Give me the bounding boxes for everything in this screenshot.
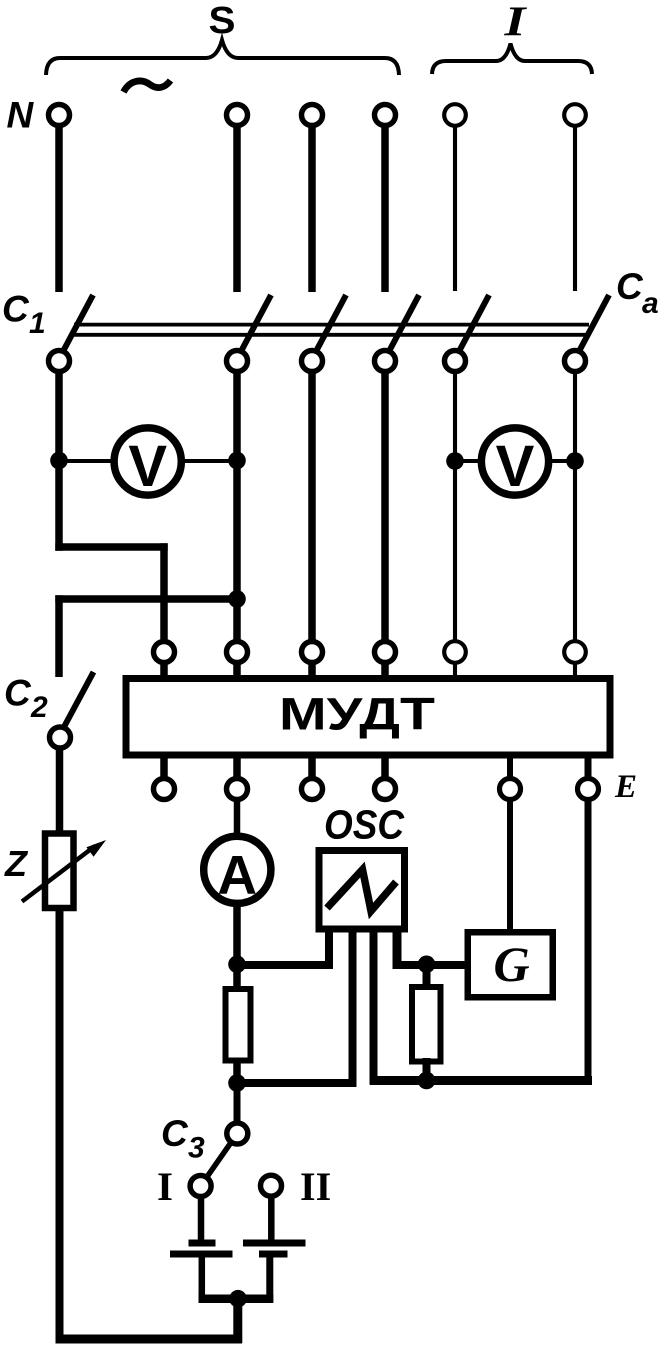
svg-text:V: V — [496, 434, 535, 499]
stub top terminal 4 — [381, 661, 389, 676]
switch C3 blade — [207, 1142, 232, 1177]
OSC zigzag symbol — [327, 870, 396, 912]
switch pole 2 circle — [227, 351, 248, 372]
wire col6 switch to MUDT — [573, 372, 577, 643]
svg-text:3: 3 — [188, 1132, 205, 1165]
svg-text:I: I — [157, 1164, 173, 1209]
svg-text:1: 1 — [29, 307, 46, 340]
wire C3 top — [234, 1083, 241, 1124]
svg-text:C: C — [2, 289, 30, 330]
terminal 5 — [444, 104, 466, 126]
svg-text:Z: Z — [4, 843, 29, 884]
gang bar line 2 — [71, 333, 588, 337]
stub top terminal 1 — [160, 661, 168, 676]
switch pole 2 blade — [242, 295, 271, 350]
stub bottom terminal 2 — [233, 758, 241, 780]
wire contact II down — [268, 1196, 275, 1241]
wire col1 switch to corner — [55, 372, 63, 551]
node dot R2 top — [418, 956, 436, 974]
brace I — [432, 44, 592, 75]
gang bar line 1 — [74, 323, 589, 327]
wire bottom horizontal — [56, 1335, 243, 1344]
wire col2 switch to MUDT — [233, 372, 241, 643]
MUDT bottom terminal 3 — [302, 779, 323, 800]
wire col5 switch to MUDT — [453, 372, 457, 643]
node dot V2 left — [446, 452, 464, 470]
impedance Z box — [45, 834, 74, 909]
MUDT top terminal 2 — [227, 642, 248, 663]
wire Z bottom long run — [56, 908, 64, 1343]
wire terminal5 down — [453, 125, 457, 291]
label C3 — [161, 1113, 205, 1165]
stub bottom terminal 1 — [160, 758, 168, 780]
wire col4 switch to MUDT — [381, 372, 389, 643]
svg-text:II: II — [300, 1164, 331, 1209]
stub bottom terminal 4 — [381, 758, 389, 780]
svg-text:C: C — [616, 266, 644, 307]
terminal 3 — [302, 105, 323, 126]
wire ammeter bottom — [233, 902, 241, 965]
stub R2 bottom — [423, 1058, 431, 1084]
terminal 2 — [227, 105, 248, 126]
wire terminal6 down — [573, 125, 577, 291]
label Ca — [616, 266, 659, 320]
switch Ca circle — [565, 351, 586, 372]
wire terminal3 down — [308, 125, 316, 292]
AC tilde symbol — [124, 81, 171, 93]
wire capacitor 1 jog — [199, 1294, 243, 1303]
label C2 — [4, 673, 48, 725]
ammeter A circle — [204, 836, 271, 903]
wire bottom rise to cap node — [233, 1294, 242, 1343]
OSC leg 2 vertical — [349, 929, 357, 1087]
voltmeter V1 circle — [114, 428, 181, 495]
capacitor 1 top plate — [189, 1240, 216, 1247]
svg-text:OSC: OSC — [324, 802, 405, 848]
terminal 6 — [564, 104, 586, 126]
stub bottom terminal 5 — [507, 758, 513, 780]
MUDT top terminal 5 — [444, 641, 466, 663]
wire bottom bus to E — [370, 1076, 592, 1085]
switch Ca blade — [580, 295, 609, 350]
wire jog vertical to MUDT terminal — [160, 543, 168, 642]
wire C2 to Z — [56, 748, 64, 832]
wire contact I down — [198, 1196, 205, 1241]
wire capacitor 1 down — [199, 1258, 206, 1303]
terminal 4 — [375, 105, 396, 126]
svg-text:I: I — [503, 0, 527, 46]
MUDT bottom terminal 6 (E) — [578, 779, 599, 800]
wire ammeter top — [234, 799, 241, 838]
impedance Z arrow head — [86, 840, 106, 857]
OSC leg 1 horizontal to ammeter node — [234, 961, 334, 969]
node dot V1 left — [50, 452, 68, 470]
svg-text:N: N — [7, 95, 35, 136]
node dot V2 right — [566, 452, 584, 470]
block OSC box — [319, 851, 405, 930]
stub R2 top — [423, 961, 431, 990]
svg-text:V: V — [128, 434, 167, 499]
voltmeter V2 circle — [481, 428, 548, 495]
switch C1 circle — [49, 351, 70, 372]
MUDT top terminal 1 — [154, 642, 175, 663]
block MUDT box — [126, 679, 610, 756]
wire horizontal to C2 branch — [55, 595, 237, 603]
switch C3 top circle — [227, 1123, 248, 1144]
wire jog horizontal upper — [55, 543, 167, 551]
MUDT top terminal 3 — [302, 642, 323, 663]
MUDT top terminal 6 — [564, 641, 586, 663]
switch pole 5 circle — [445, 351, 466, 372]
wire terminal4 down — [381, 125, 389, 292]
switch C2 circle — [50, 727, 71, 748]
switch pole 4 blade — [390, 295, 419, 350]
voltmeter V1 connector wire — [59, 459, 237, 463]
capacitor 2 bottom plate — [259, 1251, 288, 1258]
stub top terminal 3 — [308, 661, 316, 676]
switch pole 3 circle — [302, 351, 323, 372]
MUDT bottom terminal 2 — [227, 779, 248, 800]
OSC leg 1 vertical — [325, 929, 333, 969]
wire E vertical — [585, 799, 592, 1085]
switch pole 3 blade — [317, 295, 346, 350]
stub R1 bottom — [233, 1061, 241, 1086]
voltmeter V2 connector wire — [455, 459, 575, 463]
capacitor 2 top plate — [243, 1240, 306, 1247]
wire terminal2 down — [233, 125, 241, 292]
switch pole 4 circle — [375, 351, 396, 372]
switch C3 contact II circle — [261, 1175, 282, 1196]
resistor R2 — [412, 987, 441, 1062]
wire G top — [507, 799, 513, 933]
svg-text:a: a — [642, 287, 659, 320]
impedance Z arrow line — [22, 846, 95, 902]
svg-text:E: E — [614, 769, 637, 805]
svg-text:C: C — [161, 1113, 189, 1154]
node dot col2 lower — [228, 590, 246, 608]
brace S — [46, 40, 399, 75]
node dot capacitor junction — [229, 1290, 247, 1308]
svg-text:S: S — [209, 0, 236, 42]
wire C2 branch down — [55, 595, 63, 677]
stub R1 top — [233, 960, 241, 988]
capacitor 1 bottom plate — [170, 1251, 233, 1258]
terminal 1 (N) — [49, 105, 70, 126]
stub bottom terminal 3 — [308, 758, 316, 780]
OSC leg 4 vertical — [393, 929, 402, 969]
stub top terminal 6 — [573, 662, 577, 676]
svg-text:G: G — [493, 936, 529, 992]
OSC leg 4 horizontal to G — [393, 961, 469, 969]
svg-text:A: A — [217, 844, 257, 906]
MUDT top terminal 4 — [375, 642, 396, 663]
node dot R1 bottom — [228, 1074, 246, 1092]
stub bottom terminal 6 — [585, 758, 592, 780]
svg-text:2: 2 — [30, 691, 48, 724]
node dot V1 right — [228, 452, 246, 470]
svg-text:МУДТ: МУДТ — [279, 689, 435, 740]
resistor R1 — [226, 989, 251, 1061]
switch C3 contact I circle — [190, 1176, 211, 1197]
node dot R1 top — [228, 956, 246, 974]
switch C1 blade — [64, 295, 93, 350]
switch pole 5 blade — [460, 295, 489, 350]
MUDT bottom terminal 5 — [500, 779, 521, 800]
wire capacitor 2 jog — [238, 1294, 273, 1303]
node dot R2 bottom — [418, 1072, 436, 1090]
switch C2 blade — [65, 672, 94, 726]
stub top terminal 5 — [453, 662, 457, 676]
svg-text:C: C — [4, 673, 32, 714]
wire terminal1 down — [55, 125, 63, 292]
wire R1 bottom to OSC leg2 — [233, 1079, 357, 1087]
OSC leg 3 vertical — [370, 929, 378, 1085]
MUDT bottom terminal 1 — [154, 779, 175, 800]
wire col3 switch to MUDT — [308, 372, 316, 643]
stub top terminal 2 — [233, 661, 241, 676]
block G box — [468, 932, 553, 997]
label C1 — [2, 289, 46, 341]
wire capacitor 2 down — [266, 1258, 273, 1303]
MUDT bottom terminal 4 — [375, 779, 396, 800]
